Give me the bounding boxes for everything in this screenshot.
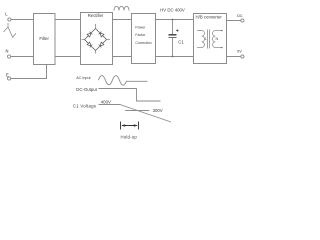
capacitor C1 leads — [172, 20, 174, 57]
capacitor C1 plus sign — [176, 29, 179, 32]
svg-text:1: 1 — [205, 37, 207, 41]
terminal L — [8, 18, 11, 21]
svg-text:DC-Output: DC-Output — [76, 87, 97, 92]
wire Filter to Rectifier top — [55, 19, 81, 21]
svg-text:Correction: Correction — [135, 41, 151, 45]
diode D1 top-left — [83, 27, 97, 41]
svg-text:Power: Power — [135, 25, 146, 29]
svg-text:HV DC 400V: HV DC 400V — [160, 8, 185, 13]
300V reference line — [125, 110, 149, 112]
capacitor C1 top plate — [169, 34, 177, 36]
wire PFC to HB bottom — [156, 56, 194, 58]
hold-up interval marker — [121, 122, 139, 130]
svg-text:L: L — [5, 12, 8, 17]
bridge stubs — [82, 24, 111, 54]
wire Rectifier to PFC bottom — [113, 56, 132, 58]
svg-text:N: N — [6, 49, 9, 54]
wire PFC to HB top (HV DC rail) — [156, 19, 194, 21]
wire HB to DC terminal — [227, 20, 241, 22]
svg-text:400V: 400V — [101, 100, 111, 105]
diode D4 bottom-right — [94, 38, 108, 52]
svg-text:H/B converter: H/B converter — [196, 15, 223, 20]
transformer secondary top dot — [221, 30, 223, 32]
svg-text:Filter: Filter — [39, 36, 49, 41]
transformer T1 secondary winding — [213, 31, 222, 48]
HB converter block — [194, 14, 227, 64]
C1 voltage waveform — [99, 105, 172, 123]
terminal 0V — [241, 55, 244, 58]
wire L to Filter — [11, 19, 33, 21]
wire E to Filter bottom — [11, 65, 47, 79]
terminal DC — [241, 19, 244, 22]
svg-text:C1: C1 — [178, 39, 184, 44]
filter block — [34, 14, 56, 65]
wire N to Filter — [11, 56, 34, 58]
transformer T1 primary winding — [197, 31, 204, 48]
svg-text:AC Input: AC Input — [76, 76, 90, 80]
terminal E — [8, 77, 11, 80]
hold-up right arrowhead — [134, 124, 138, 126]
rectifier block — [81, 13, 113, 65]
junction dot bottom of C1 — [172, 56, 174, 58]
capacitor C1 bottom plate — [169, 37, 177, 39]
wire Rectifier to PFC top — [113, 19, 132, 21]
svg-text:N: N — [215, 37, 218, 41]
diode D3 bottom-left — [83, 38, 97, 52]
svg-text:E: E — [6, 72, 9, 77]
svg-text:0V: 0V — [237, 50, 242, 54]
AC source sine symbol — [4, 23, 16, 37]
transformer secondary bottom dot — [221, 47, 223, 49]
AC input waveform — [98, 76, 147, 86]
svg-text:Hold-up: Hold-up — [121, 135, 138, 140]
svg-text:Factor: Factor — [135, 33, 146, 37]
wire Filter to Rectifier bottom — [55, 56, 81, 58]
hold-up left arrowhead — [121, 124, 125, 126]
DC output waveform — [99, 89, 161, 102]
svg-text:C1 Voltage: C1 Voltage — [73, 104, 97, 109]
transformer T1 core — [208, 30, 210, 49]
svg-text:DC: DC — [237, 14, 243, 18]
diode D2 top-right — [94, 27, 108, 41]
svg-text:Rectifier: Rectifier — [88, 13, 104, 18]
terminal N — [8, 55, 11, 58]
rectified waveform symbol — [114, 6, 129, 10]
PFC block — [132, 14, 156, 64]
wire HB to 0V terminal — [227, 56, 241, 58]
junction dot top of C1 — [172, 19, 174, 21]
svg-text:300V: 300V — [153, 108, 163, 113]
